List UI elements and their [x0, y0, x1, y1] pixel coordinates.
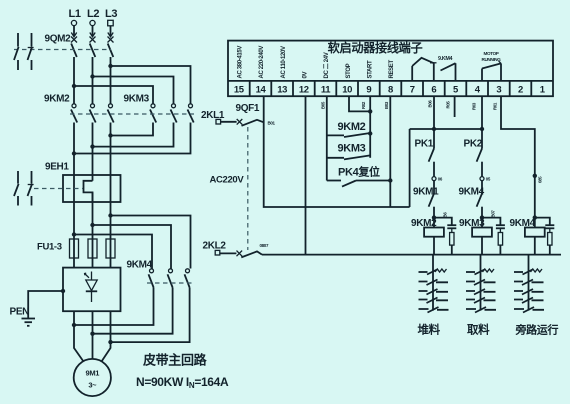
wire motor lead 2 [92, 311, 94, 359]
fuse FU2 [88, 239, 97, 268]
svg-text:PEN: PEN [10, 307, 30, 318]
breaker 9QM2 pole 1 [71, 37, 77, 58]
node junction bypass join 2 [90, 332, 94, 336]
overload 9EH1 aux contact 2 [28, 171, 34, 206]
svg-text:9KM4: 9KM4 [127, 260, 153, 271]
node junction snubber3 tap [533, 215, 537, 219]
wire 9KM3 pole2 to phase2 [93, 123, 174, 147]
wire phase3 below 9QM2 [110, 57, 112, 104]
wire branch L2 to 9KM3 pole2 [93, 77, 174, 104]
wire phase1 to overload [73, 123, 75, 240]
svg-text:13: 13 [277, 84, 287, 95]
wire control bus upper [410, 128, 482, 130]
coil 9KM2 [411, 218, 444, 255]
svg-text:6: 6 [431, 84, 436, 95]
terminal numbers 15 to 1 [234, 84, 546, 95]
contact 9KM4 aux [459, 181, 485, 228]
svg-text:7: 7 [410, 84, 415, 95]
svg-text:R01: R01 [492, 102, 497, 110]
svg-text:9KM2: 9KM2 [44, 94, 70, 105]
svg-text:9KM1: 9KM1 [413, 187, 439, 198]
svg-text:9QF1: 9QF1 [236, 103, 260, 114]
svg-text:AC 220-240V: AC 220-240V [259, 46, 265, 79]
wire phase3 to overload [110, 123, 112, 240]
relay contact 7-6 internal [412, 58, 436, 81]
svg-text:STOP: STOP [346, 63, 352, 78]
wire 9KM4 pole1 return [74, 288, 154, 326]
svg-text:12: 12 [299, 84, 309, 95]
svg-text:START: START [367, 60, 373, 78]
relay contact 6-5 internal 9KM4 [438, 56, 456, 81]
node PK1 connector circle [432, 177, 436, 181]
svg-text:2: 2 [518, 84, 523, 95]
breaker 9QM2 aux contact 2 [28, 33, 34, 70]
overload relay 9EH1 heater step [84, 181, 93, 202]
svg-text:9KM3: 9KM3 [124, 94, 150, 105]
node PK2 connector circle [480, 177, 484, 181]
node junction bypass tap 2 [90, 223, 94, 227]
svg-text:旁路运行: 旁路运行 [515, 323, 559, 337]
wire terminal4 drop PK2 column [481, 96, 483, 148]
coil 9KM3 [459, 218, 492, 255]
node junction rung1 right [368, 131, 372, 135]
wire bypass tap3 to 9KM4 pole3 [111, 216, 191, 269]
svg-text:B07: B07 [490, 210, 495, 218]
svg-text:AC 110-120V: AC 110-120V [281, 46, 287, 79]
breaker 9QM2 pole 2 [90, 37, 96, 58]
wire L2 drop [90, 26, 95, 37]
svg-text:14: 14 [256, 84, 267, 95]
svg-text:9.KM4: 9.KM4 [438, 56, 452, 62]
svg-text:皮带主回路: 皮带主回路 [142, 353, 208, 368]
overload relay 9EH1 box [63, 175, 121, 202]
svg-text:0807: 0807 [260, 243, 269, 248]
svg-text:AC 380-415V: AC 380-415V [238, 46, 244, 79]
wire 9KM4 pole2 return [93, 288, 173, 334]
svg-text:9KM2: 9KM2 [338, 121, 366, 133]
svg-text:RESET: RESET [389, 60, 395, 79]
breaker 9QM2 pole 3 [108, 37, 114, 58]
wire phase1 below 9QM2 [73, 57, 75, 104]
wire phase2 below 9QM2 [92, 57, 94, 104]
node junction jumper [368, 109, 372, 113]
wire terminal6 drop PK1 column [433, 96, 435, 148]
svg-text:PK4复位: PK4复位 [338, 165, 380, 179]
svg-text:软启动器接线端子: 软启动器接线端子 [328, 40, 423, 55]
wire motor lead 1 [74, 311, 84, 361]
svg-text:9M1: 9M1 [86, 369, 100, 378]
wire terminal5 stub [454, 96, 456, 117]
svg-text:B06: B06 [428, 100, 433, 108]
svg-text:DC 二 24V: DC 二 24V [323, 52, 330, 78]
svg-text:B05: B05 [320, 101, 325, 109]
svg-text:N=90KW IN=164A: N=90KW IN=164A [136, 375, 229, 390]
contactor 9KM3 pole 1 [150, 104, 156, 123]
svg-text:FU1-3: FU1-3 [37, 242, 62, 253]
contact PK4 reset rung3 [327, 165, 391, 187]
snubber RC 3 [535, 218, 555, 255]
wire 9KM4 pole3 return [111, 288, 190, 343]
contact stack bypass run [514, 255, 544, 313]
node junction PK2 feed [480, 127, 484, 131]
breaker 9QF1 pole 2 [237, 251, 263, 258]
relay contact 4-3 motor running [482, 51, 502, 81]
motor 9M1 [74, 359, 111, 396]
fuse FU3 [106, 239, 115, 268]
svg-text:R05: R05 [446, 101, 451, 109]
node junction L2-branch [90, 74, 94, 78]
node junction rung3 right [388, 178, 392, 182]
overload 9EH1 aux contact 1 [14, 171, 19, 206]
contactor 9KM4 linkage dashed [147, 282, 192, 284]
wire bypass tap2 to 9KM4 pole2 [93, 225, 172, 269]
svg-text:B03: B03 [384, 101, 389, 109]
wire L3 drop [108, 26, 113, 37]
node 2KL2 [203, 240, 227, 255]
svg-text:9EH1: 9EH1 [45, 162, 69, 173]
contactor 9KM4 pole 1 [149, 269, 154, 288]
node junction bypass tap 1 [72, 232, 76, 236]
svg-text:L3: L3 [105, 8, 117, 20]
contactor 9KM2 pole 2 [90, 104, 96, 123]
svg-text:L2: L2 [87, 8, 99, 20]
contact stack stacker [419, 255, 449, 313]
node junction phase3 merge [108, 133, 112, 137]
wire terminal9 drop ladder right rail [369, 96, 371, 158]
wire terminal10 stub jumper [349, 96, 370, 111]
node junction bypass tap 3 [108, 213, 112, 217]
node junction phase1 merge [72, 151, 76, 155]
contactor 9KM2 9KM3 linkage dashed [70, 113, 194, 115]
svg-text:3: 3 [496, 84, 501, 95]
wire phase2 below overload [92, 192, 94, 239]
node junction snubber2 tap [480, 215, 484, 219]
svg-text:B01: B01 [268, 120, 276, 125]
node junction bypass join 1 [72, 323, 76, 327]
contactor 9KM4 pole 2 [168, 269, 173, 288]
wire phase2 to overload [92, 123, 94, 181]
wire motor lead 3 [102, 311, 111, 361]
terminal cell dividers [250, 81, 532, 96]
wire bypass tap1 to 9KM4 pole1 [74, 235, 152, 269]
breaker 9QM2 linkage dashed [14, 49, 111, 51]
svg-text:3~: 3~ [88, 381, 97, 390]
svg-text:R02: R02 [361, 101, 366, 109]
soft starter thyristor [85, 272, 98, 303]
contactor 9KM3 pole 3 [188, 104, 194, 123]
wire terminal3 drop [501, 96, 535, 227]
wire terminal12 drop to neutral [305, 96, 307, 254]
node junction L3-branch [108, 64, 112, 68]
node junction bypass join 3 [108, 340, 112, 344]
wire neutral bus [262, 254, 561, 256]
svg-text:堆料: 堆料 [418, 323, 441, 337]
wire 9KM3 pole1 to phase3 [111, 123, 154, 136]
contact stack reclaiming [466, 255, 496, 313]
node L1 [69, 8, 81, 26]
breaker 9QM2 aux contact 1 [14, 33, 19, 70]
svg-text:取料: 取料 [467, 323, 490, 337]
breaker 9QF1 pole 1 [237, 119, 264, 126]
wire 2KL1 to 9QF1 [221, 121, 237, 123]
contact 9KM1 aux [413, 181, 439, 228]
node junction PEN tap [61, 289, 65, 293]
contact PK2 [464, 139, 483, 177]
contactor 9KM3 pole 2 [171, 104, 177, 123]
svg-text:9: 9 [366, 84, 371, 95]
node L2 [87, 8, 99, 26]
wire terminal11 drop ladder left rail [326, 96, 328, 180]
breaker 9QF1 linkage dashed [247, 127, 249, 250]
node junction riser3 [533, 174, 537, 178]
svg-text:11: 11 [321, 84, 331, 95]
node L3 [105, 8, 117, 26]
snubber RC 1 [434, 218, 456, 255]
contact 9KM2 aux rung1 [327, 121, 370, 137]
svg-text:0V: 0V [302, 72, 308, 79]
svg-text:8: 8 [388, 84, 393, 95]
node junction snubber1 tap [432, 215, 436, 219]
svg-text:R03: R03 [472, 102, 477, 110]
wire live riser [409, 129, 411, 207]
svg-text:9QM2: 9QM2 [45, 34, 72, 45]
overload 9EH1 linkage dashed [34, 188, 83, 190]
coil 9KM4 [510, 218, 545, 255]
contactor 9KM2 pole 1 [71, 104, 77, 123]
ground PEN symbol [22, 319, 36, 326]
svg-text:AC220V: AC220V [210, 175, 245, 186]
wire branch L3 to 9KM3 pole3 [111, 66, 191, 104]
svg-text:L1: L1 [69, 8, 81, 20]
svg-text:10: 10 [342, 84, 352, 95]
svg-text:085: 085 [537, 176, 542, 183]
wire terminal14 drop to live bus [264, 96, 410, 207]
wire 2KL2 to 9QF1 [220, 252, 237, 254]
contactor 9KM2 pole 3 [108, 104, 114, 123]
node junction PK1 feed [432, 127, 436, 131]
svg-text:RUNNING: RUNNING [482, 57, 502, 62]
svg-text:PK1: PK1 [415, 139, 434, 150]
contact PK1 [415, 139, 435, 177]
node junction phase2 merge [90, 144, 94, 148]
svg-text:9KM3: 9KM3 [338, 143, 366, 155]
node 2KL1 [201, 110, 225, 124]
svg-text:2KL2: 2KL2 [203, 240, 227, 251]
contact 9KM3 aux rung2 [327, 143, 370, 160]
wire terminal8 drop [389, 96, 391, 207]
node junction L1-branch [72, 84, 76, 88]
wire L1 drop [71, 26, 76, 37]
terminal row top line [228, 80, 553, 82]
svg-text:15: 15 [234, 84, 245, 95]
fuse FU1 [70, 239, 79, 268]
wire 9KM3 pole3 to phase1 [74, 123, 191, 154]
svg-text:2KL1: 2KL1 [201, 110, 225, 121]
soft starter box [63, 268, 121, 312]
wire branch L1 to 9KM3 pole1 [74, 86, 153, 104]
contactor 9KM4 pole 3 [185, 269, 190, 288]
svg-text:PK2: PK2 [464, 139, 483, 150]
snubber RC 2 [482, 218, 505, 255]
soft starter terminal block box [228, 41, 553, 97]
wire PEN tap [28, 291, 63, 318]
svg-text:MOTOP: MOTOP [484, 51, 499, 56]
